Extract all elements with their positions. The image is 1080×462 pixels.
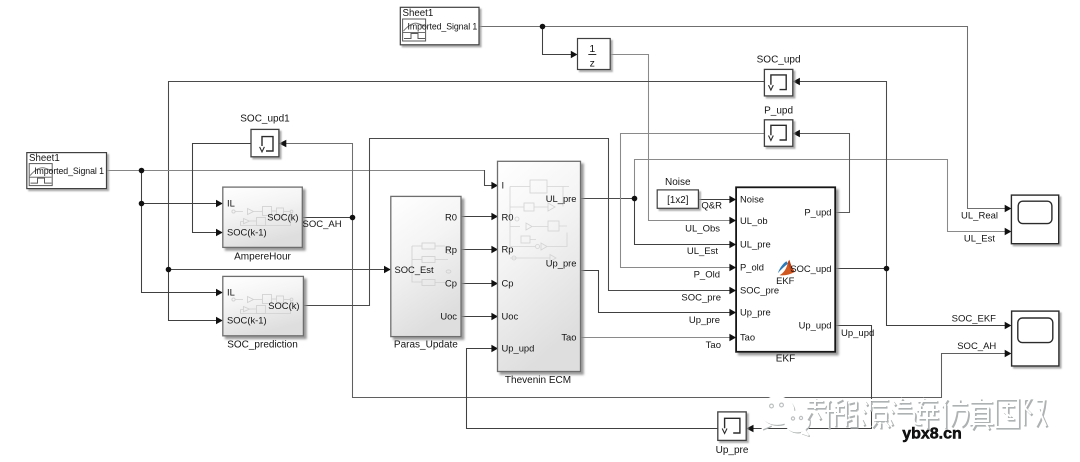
svg-text:SOC_AH: SOC_AH xyxy=(303,219,342,230)
svg-text:UL_Real: UL_Real xyxy=(961,210,998,221)
svg-text:Paras_Update: Paras_Update xyxy=(394,339,458,350)
svg-text:Noise: Noise xyxy=(665,177,691,188)
svg-text:Imported_Signal 1: Imported_Signal 1 xyxy=(408,21,478,31)
svg-text:Cp: Cp xyxy=(445,278,457,289)
svg-text:UL_Est: UL_Est xyxy=(687,246,719,257)
svg-text:[1x2]: [1x2] xyxy=(667,195,689,206)
svg-text:Up_pre: Up_pre xyxy=(716,445,749,456)
svg-text:Up_upd: Up_upd xyxy=(502,343,535,354)
svg-text:R0: R0 xyxy=(445,211,457,222)
svg-text:AmpereHour: AmpereHour xyxy=(234,251,291,262)
svg-text:SOC(k): SOC(k) xyxy=(267,212,298,223)
svg-text:SOC_upd1: SOC_upd1 xyxy=(240,114,290,125)
svg-text:Sheet1: Sheet1 xyxy=(403,8,434,19)
svg-text:SOC_EKF: SOC_EKF xyxy=(952,313,997,324)
svg-text:P_old: P_old xyxy=(740,262,764,273)
svg-text:Noise: Noise xyxy=(740,193,764,204)
svg-text:P_upd: P_upd xyxy=(764,106,793,117)
svg-text:UL_pre: UL_pre xyxy=(740,239,771,250)
svg-text:SOC(k): SOC(k) xyxy=(268,300,299,311)
svg-text:UL_pre: UL_pre xyxy=(546,193,577,204)
svg-text:Uoc: Uoc xyxy=(502,310,519,321)
svg-text:Q&R: Q&R xyxy=(701,201,722,212)
svg-text:Tao: Tao xyxy=(706,340,721,351)
svg-text:SOC_AH: SOC_AH xyxy=(957,341,996,352)
svg-text:z: z xyxy=(590,57,595,69)
svg-text:Cp: Cp xyxy=(502,277,514,288)
svg-text:IL: IL xyxy=(227,198,235,209)
svg-text:Up_pre: Up_pre xyxy=(740,307,771,318)
svg-text:UL_Est: UL_Est xyxy=(964,233,996,244)
svg-text:Uoc: Uoc xyxy=(440,310,457,321)
svg-text:I: I xyxy=(502,179,505,190)
svg-text:Imported_Signal 1: Imported_Signal 1 xyxy=(34,166,104,176)
svg-text:Up_upd: Up_upd xyxy=(841,328,874,339)
svg-text:1: 1 xyxy=(589,43,595,55)
svg-text:SOC_Est: SOC_Est xyxy=(395,264,434,275)
svg-text:Rp: Rp xyxy=(445,244,457,255)
svg-text:Sheet1: Sheet1 xyxy=(29,153,60,164)
svg-text:P_upd: P_upd xyxy=(804,206,831,217)
svg-text:SOC_prediction: SOC_prediction xyxy=(227,339,298,350)
svg-text:Up_upd: Up_upd xyxy=(799,319,832,330)
svg-text:Tao: Tao xyxy=(561,332,576,343)
svg-text:IL: IL xyxy=(227,287,235,298)
svg-text:Thevenin ECM: Thevenin ECM xyxy=(505,375,571,386)
svg-text:Up_pre: Up_pre xyxy=(546,258,577,269)
svg-text:SOC_upd: SOC_upd xyxy=(790,263,831,274)
svg-text:SOC_pre: SOC_pre xyxy=(681,292,721,303)
svg-text:SOC_upd: SOC_upd xyxy=(757,55,801,66)
svg-text:UL_Obs: UL_Obs xyxy=(685,224,720,235)
svg-text:SOC(k-1): SOC(k-1) xyxy=(227,315,267,326)
svg-text:UL_ob: UL_ob xyxy=(740,215,768,226)
svg-text:EKF: EKF xyxy=(776,354,795,365)
svg-text:P_Old: P_Old xyxy=(694,270,720,281)
svg-text:R0: R0 xyxy=(502,211,514,222)
svg-text:Tao: Tao xyxy=(740,332,755,343)
svg-text:SOC_pre: SOC_pre xyxy=(740,285,779,296)
svg-text:ybx8.cn: ybx8.cn xyxy=(902,426,962,443)
svg-text:SOC(k-1): SOC(k-1) xyxy=(227,227,267,238)
svg-text:Up_pre: Up_pre xyxy=(689,315,720,326)
svg-text:Rp: Rp xyxy=(502,244,514,255)
